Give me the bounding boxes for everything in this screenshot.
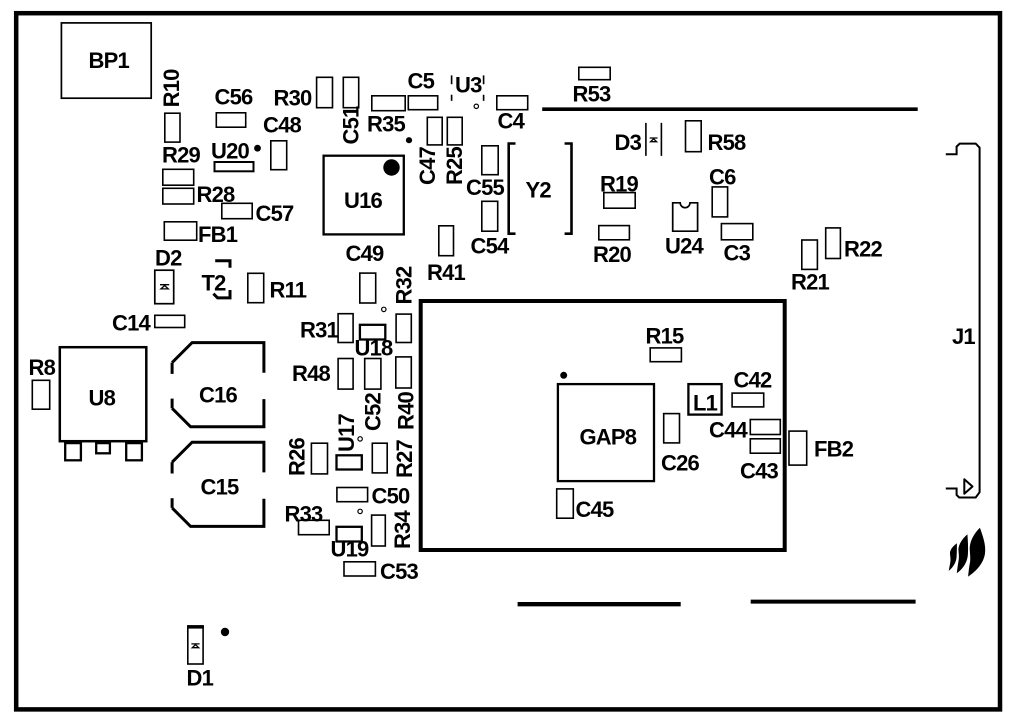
capacitor C49 — [346, 241, 385, 303]
resistor R33 — [285, 502, 330, 535]
svg-text:R33: R33 — [285, 502, 324, 527]
capacitor C50 — [337, 484, 410, 509]
fiducial dot near R35 — [406, 137, 412, 143]
svg-text:R41: R41 — [427, 260, 466, 285]
capacitor C14 — [112, 311, 185, 336]
svg-text:U18: U18 — [355, 336, 394, 361]
capacitor C6 — [709, 165, 736, 217]
capacitor C55 — [466, 146, 505, 200]
pin-1 dot GAP8 — [560, 372, 567, 379]
svg-text:FB2: FB2 — [814, 437, 854, 462]
capacitor C57 — [222, 201, 294, 226]
svg-text:C4: C4 — [498, 109, 526, 134]
svg-text:C42: C42 — [734, 368, 773, 393]
svg-text:R27: R27 — [392, 439, 417, 478]
svg-text:C45: C45 — [576, 497, 615, 522]
svg-text:R58: R58 — [708, 130, 747, 155]
resistor R21 — [791, 240, 830, 295]
resistor R31 — [300, 314, 353, 343]
capacitor C47 — [415, 117, 442, 185]
resistor R28 — [163, 182, 235, 207]
svg-text:T2: T2 — [202, 271, 227, 296]
svg-text:R11: R11 — [270, 278, 307, 303]
node fiducial near C49 — [382, 307, 386, 311]
svg-text:D3: D3 — [615, 130, 642, 155]
connector BP1 — [61, 23, 151, 98]
crystal Y2 — [509, 144, 572, 234]
svg-text:C51: C51 — [339, 106, 364, 145]
svg-text:C52: C52 — [361, 392, 386, 431]
capacitor C15 — [172, 442, 264, 526]
resistor R29 — [162, 143, 201, 186]
svg-text:R40: R40 — [394, 391, 419, 430]
svg-text:R20: R20 — [593, 242, 632, 267]
resistor R19 — [600, 172, 639, 209]
svg-text:FB1: FB1 — [198, 222, 238, 247]
svg-text:R26: R26 — [285, 437, 310, 476]
capacitor C44 — [709, 418, 780, 443]
resistor R22 — [826, 228, 883, 262]
svg-text:Y2: Y2 — [526, 178, 552, 203]
resistor R58 — [686, 121, 747, 155]
svg-text:C3: C3 — [724, 241, 751, 266]
resistor R15 — [646, 324, 685, 362]
svg-text:R34: R34 — [390, 509, 415, 549]
resistor R10 — [159, 69, 184, 142]
capacitor C48 — [263, 113, 302, 170]
svg-text:U17: U17 — [334, 413, 359, 452]
diode D1 — [187, 625, 214, 690]
resistor R53 — [573, 67, 612, 106]
svg-text:U20: U20 — [211, 139, 250, 164]
svg-text:L1: L1 — [693, 391, 718, 416]
resistor R20 — [593, 226, 632, 267]
logo flame small — [949, 543, 957, 571]
node fiducial near U3 — [474, 104, 478, 108]
svg-text:R8: R8 — [29, 355, 56, 380]
svg-text:C15: C15 — [201, 475, 240, 500]
fiducial dot near D1 — [221, 628, 229, 636]
logo flame large — [968, 528, 985, 577]
svg-text:U24: U24 — [665, 234, 705, 259]
svg-text:C49: C49 — [346, 241, 385, 266]
svg-text:R48: R48 — [292, 361, 331, 386]
resistor R48 — [292, 359, 353, 390]
IC GAP8 — [558, 384, 654, 481]
svg-text:U16: U16 — [344, 188, 383, 213]
capacitor C51 — [339, 77, 364, 144]
IC U20 — [211, 139, 261, 172]
svg-text:U3: U3 — [455, 73, 482, 98]
resistor R25 — [442, 117, 467, 185]
svg-text:C53: C53 — [380, 559, 419, 584]
resistor R32 — [391, 266, 416, 343]
resistor R8 — [29, 355, 56, 409]
regulator U8 — [60, 347, 147, 460]
capacitor C42 — [732, 368, 772, 407]
svg-text:R53: R53 — [573, 82, 612, 107]
svg-text:R25: R25 — [442, 146, 467, 185]
svg-text:R30: R30 — [274, 86, 313, 111]
svg-text:C44: C44 — [709, 418, 749, 443]
svg-text:C6: C6 — [709, 165, 736, 190]
svg-text:C54: C54 — [471, 234, 511, 259]
svg-text:C55: C55 — [466, 175, 505, 200]
logo flame middle — [957, 534, 968, 573]
svg-text:C48: C48 — [263, 113, 302, 138]
IC U19 — [331, 527, 370, 562]
wire top net line — [542, 107, 918, 111]
svg-text:BP1: BP1 — [89, 48, 130, 73]
resistor R27 — [372, 439, 417, 478]
capacitor C56 — [215, 85, 254, 128]
capacitor C26 — [661, 414, 700, 476]
capacitor C3 — [721, 224, 752, 266]
IC U18 — [355, 325, 394, 361]
svg-text:R29: R29 — [162, 143, 201, 168]
capacitor C43 — [740, 439, 780, 484]
resistor R30 — [274, 77, 333, 110]
transistor T2 — [202, 261, 231, 298]
svg-text:C26: C26 — [661, 451, 700, 476]
svg-text:R15: R15 — [646, 324, 685, 349]
svg-text:R21: R21 — [791, 270, 830, 295]
svg-text:C56: C56 — [215, 85, 254, 110]
resistor R41 — [427, 226, 466, 285]
capacitor C54 — [471, 201, 511, 258]
diode D3 — [615, 123, 662, 156]
GAP8 module outline — [421, 301, 785, 550]
resistor R40 — [394, 357, 419, 430]
ferrite bead FB2 — [789, 431, 854, 465]
wire bottom net line left — [518, 602, 681, 606]
inductor L1 — [688, 384, 721, 415]
capacitor C52 — [361, 359, 386, 431]
svg-text:C50: C50 — [372, 484, 411, 509]
svg-text:C5: C5 — [408, 69, 435, 94]
resistor R26 — [285, 437, 328, 476]
svg-text:D2: D2 — [155, 246, 182, 271]
resistor R11 — [248, 273, 307, 302]
svg-text:J1: J1 — [952, 324, 975, 349]
IC U16 — [324, 156, 404, 235]
svg-text:D1: D1 — [187, 666, 214, 691]
svg-text:R32: R32 — [391, 266, 416, 305]
svg-text:C16: C16 — [199, 383, 238, 408]
svg-text:C14: C14 — [112, 311, 152, 336]
node fiducial near C50 — [358, 509, 362, 513]
capacitor C53 — [344, 559, 419, 584]
svg-text:C57: C57 — [256, 201, 295, 226]
capacitor C45 — [557, 489, 614, 522]
connector J1 — [946, 144, 980, 498]
svg-text:R22: R22 — [844, 237, 883, 262]
IC U3 — [452, 73, 484, 101]
IC U17 — [334, 413, 362, 469]
IC U24 — [665, 203, 705, 259]
svg-text:C47: C47 — [415, 146, 440, 185]
svg-text:R35: R35 — [367, 112, 406, 137]
wire bottom net line right — [751, 600, 916, 604]
svg-text:U8: U8 — [89, 386, 116, 411]
svg-text:C43: C43 — [740, 459, 779, 484]
capacitor C4 — [497, 96, 528, 134]
node fiducial near U17 — [358, 437, 362, 441]
diode D2 — [155, 246, 182, 304]
svg-text:GAP8: GAP8 — [580, 425, 637, 450]
resistor R34 — [372, 509, 416, 549]
pin 1 marker J1 — [964, 479, 972, 494]
capacitor C16 — [172, 343, 264, 427]
capacitor C5 — [408, 69, 438, 110]
svg-text:R31: R31 — [300, 318, 339, 343]
ferrite bead FB1 — [164, 222, 237, 247]
resistor R35 — [367, 96, 406, 137]
svg-text:U19: U19 — [331, 537, 370, 562]
svg-text:R10: R10 — [159, 69, 184, 108]
